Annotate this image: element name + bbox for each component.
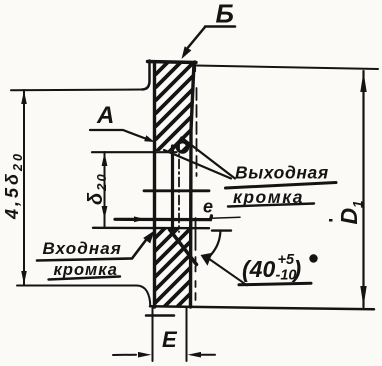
underline kromka bottom — [49, 277, 121, 280]
arrowhead B — [182, 46, 192, 59]
extension line left top — [11, 89, 142, 92]
leader B — [188, 27, 205, 48]
svg-text:Выходная: Выходная — [235, 163, 329, 183]
svg-text:Б: Б — [216, 0, 234, 29]
blade slant edge — [170, 230, 197, 265]
svg-text:4,5δ20: 4,5δ20 — [2, 151, 25, 220]
arrowhead E left — [138, 352, 152, 358]
speck left of D1 — [329, 219, 333, 222]
arrowhead 4.5 down — [21, 271, 27, 285]
disk cap right edge — [194, 62, 197, 72]
svg-text:кромка: кромка — [233, 187, 304, 207]
arrowhead E right — [188, 352, 202, 358]
arrowhead A — [144, 135, 154, 142]
arrowhead angle — [201, 253, 213, 266]
arrowhead delta20 down — [102, 206, 108, 220]
line e y219 — [115, 216, 212, 220]
dim delta20 line — [104, 152, 106, 228]
angle arc — [209, 231, 221, 258]
dim 4.5delta20 line — [23, 90, 25, 285]
stray dash under flange — [146, 314, 174, 317]
blade left surface line — [171, 146, 174, 232]
svg-text:А: А — [96, 102, 114, 129]
trailing edge tip stroke — [174, 138, 182, 149]
E dim line right — [200, 354, 215, 356]
leader A — [90, 130, 148, 140]
arrowhead delta20 up — [102, 153, 108, 167]
disk top edge — [148, 62, 197, 63]
blade centerline dash-dot — [178, 142, 180, 233]
arrowhead e line — [134, 216, 146, 222]
arrowhead D1 down — [360, 286, 366, 307]
underline kromka top — [228, 204, 314, 207]
arrowhead vhodnaya — [143, 231, 154, 244]
underline vhodnaya + leader — [37, 236, 149, 261]
leader vyhod 2 — [164, 150, 231, 179]
B underbar — [205, 25, 235, 28]
underline vyhodnaya — [226, 183, 337, 189]
svg-text:δ20: δ20 — [85, 172, 109, 205]
arrowhead D1 up — [360, 72, 366, 93]
disk left lip — [142, 61, 150, 90]
E dim line left — [113, 354, 136, 356]
blade hidden edge dashed lower — [195, 218, 197, 300]
svg-text:кромка: кромка — [54, 261, 118, 279]
line mid y190 — [144, 189, 209, 192]
leader vyhod 1 — [182, 138, 236, 179]
angle leader — [210, 260, 247, 286]
disk left edge — [153, 63, 156, 307]
extension line delta20 top — [92, 151, 177, 153]
E extension lines — [153, 308, 187, 361]
arrowhead 4.5 up — [21, 91, 27, 105]
svg-text:Входная: Входная — [43, 239, 122, 258]
line e thin continuation — [211, 217, 240, 218]
hatch lower disk — [150, 198, 195, 347]
disk bottom edge / extension to D1 — [150, 306, 374, 309]
disk right edge — [191, 63, 195, 307]
svg-text:D: D — [336, 208, 362, 225]
svg-text:е: е — [203, 197, 213, 217]
underline angle — [239, 283, 311, 285]
label angle degree dot — [309, 254, 317, 262]
extension line left bottom — [17, 285, 136, 287]
svg-text:(40+5-10): (40+5-10) — [242, 252, 301, 284]
hatch upper disk — [156, 32, 198, 191]
angle stub — [212, 229, 231, 231]
svg-text:1: 1 — [351, 200, 366, 208]
blade hidden edge dashed — [196, 88, 198, 176]
svg-text:Е: Е — [162, 327, 178, 352]
extension line top right — [196, 66, 378, 70]
jog bottom left — [136, 285, 150, 306]
dim D1 line — [362, 71, 364, 307]
trailing edge circle — [177, 142, 187, 152]
line y228 — [93, 227, 209, 230]
